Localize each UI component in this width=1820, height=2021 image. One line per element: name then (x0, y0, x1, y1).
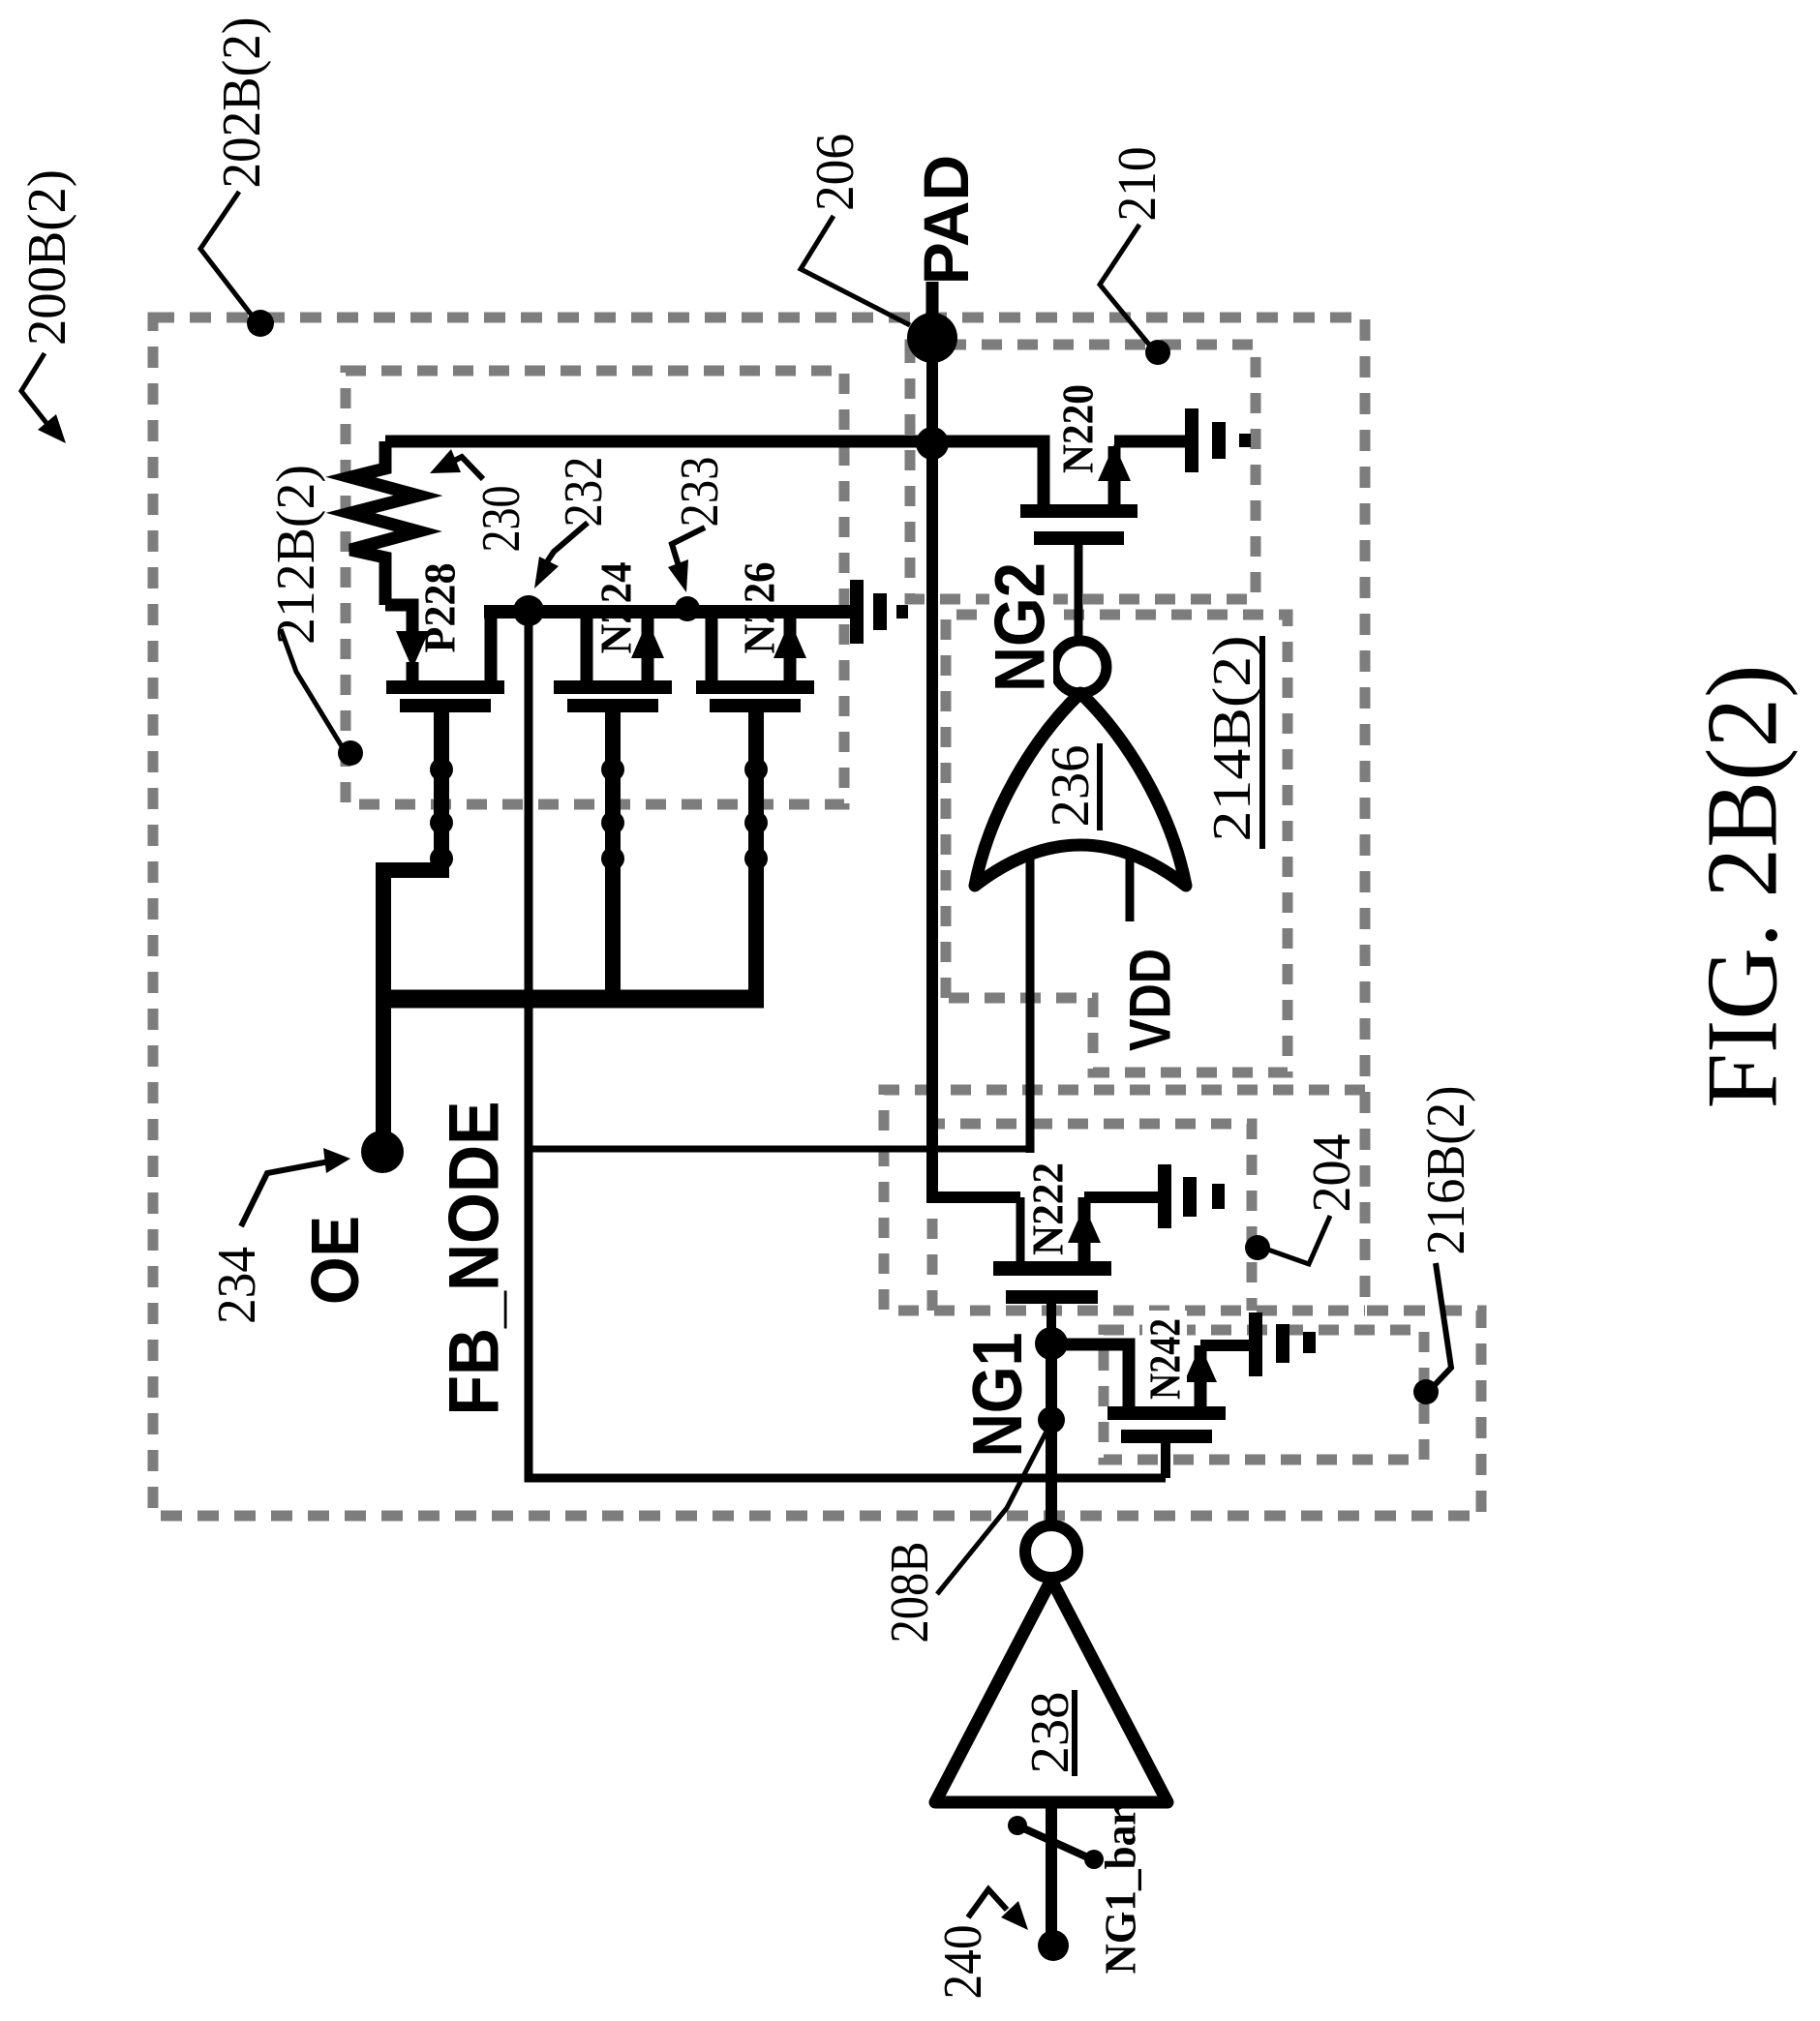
wire PAD top rail to 212B resistor (385, 441, 1044, 504)
wire N224 gate lead (605, 712, 621, 999)
leader arrow 240 (968, 1889, 1028, 1930)
leader arrow 230 (430, 449, 483, 479)
leader 206 (801, 216, 910, 325)
svg-text:202B(2): 202B(2) (212, 17, 272, 189)
PAD terminal (907, 282, 957, 363)
svg-text:238: 238 (1020, 1692, 1080, 1774)
leader 208B (937, 1428, 1048, 1594)
transistor N222 (993, 1197, 1158, 1343)
svg-text:N242: N242 (1140, 1318, 1190, 1400)
wire 212B common rail (484, 605, 850, 618)
label NG2 (982, 559, 1060, 695)
node PAD junction (916, 427, 949, 460)
node 232 (513, 595, 544, 626)
ground N222 (1158, 1164, 1225, 1228)
svg-text:200B(2): 200B(2) (17, 169, 77, 346)
svg-text:232: 232 (554, 457, 614, 528)
node NG1_bar (1038, 1930, 1069, 1961)
svg-text:NG2: NG2 (982, 562, 1060, 692)
wire slash marker 240 (1008, 1816, 1104, 1869)
svg-text:N222: N222 (1023, 1162, 1073, 1255)
inverter 238 output bubble (1025, 1525, 1077, 1578)
svg-text:P228: P228 (415, 563, 465, 653)
svg-text:FB_NODE: FB_NODE (436, 1101, 514, 1416)
svg-text:FIG. 2B(2): FIG. 2B(2) (1685, 665, 1799, 1109)
wire NOR input 2 (to VDD) (1126, 856, 1135, 921)
dashed box 216B(2) keeper circuit (1104, 1330, 1424, 1460)
transistor N226 (696, 612, 814, 712)
svg-text:236: 236 (1041, 745, 1101, 828)
svg-text:OE: OE (297, 1216, 373, 1305)
wire N226 gate lead (748, 712, 764, 999)
node dots on P228 gate lead (430, 758, 453, 870)
svg-text:VDD: VDD (1118, 949, 1183, 1051)
svg-text:240: 240 (933, 1925, 993, 2000)
dashed box 214B(2) NOR-gate circuit (946, 615, 1288, 1072)
node dots on N226 gate lead (744, 758, 768, 870)
transistor N220 (1020, 444, 1137, 640)
svg-text:216B(2): 216B(2) (1416, 1086, 1476, 1255)
node NG1 (1035, 1327, 1068, 1360)
leader 216B(2) (1413, 1263, 1451, 1404)
NOR gate 236 body (975, 693, 1186, 886)
dashed box 202B(2) outer IO-cell boundary (153, 317, 1481, 1516)
leader 202B(2) (200, 192, 274, 337)
svg-text:234: 234 (207, 1247, 267, 1324)
wire FB_NODE vertical and to N242 gate (529, 611, 1166, 1478)
label 214B(2) underlined (1202, 636, 1262, 850)
svg-text:N220: N220 (1053, 384, 1103, 473)
wire FB_NODE to NOR input (529, 1146, 1030, 1153)
svg-text:214B(2): 214B(2) (1202, 636, 1262, 842)
svg-text:233: 233 (670, 457, 730, 528)
wire PAD vertical line (932, 338, 1020, 1197)
leader arrow 200B(2) (21, 353, 66, 443)
dashed box 204 outer driver boundary (884, 1090, 1365, 1311)
wire N220 source to ground (1114, 436, 1185, 448)
wire inverter input (1046, 1802, 1057, 1934)
leader arrow 234 (241, 1148, 350, 1226)
resistor 230 (350, 441, 418, 605)
svg-text:NG1_bar: NG1_bar (1096, 1807, 1145, 1975)
svg-text:210: 210 (1107, 147, 1168, 222)
label 236 underlined (1041, 743, 1101, 830)
dashed box 212B(2) gate tracking circuit (346, 371, 844, 804)
leader 204 (1245, 1216, 1330, 1264)
dashed box 210 pull-down stage (910, 345, 1256, 599)
svg-text:212B(2): 212B(2) (266, 465, 326, 645)
wire OE bus (384, 990, 764, 1009)
dashed box 204 inner driver boundary (932, 1124, 1252, 1311)
node 233 (675, 596, 700, 621)
svg-text:N226: N226 (735, 562, 784, 654)
NOR gate 236 output bubble (1054, 641, 1107, 693)
svg-text:N224: N224 (591, 562, 641, 654)
label N242 (1140, 1311, 1190, 1403)
wire NG1 vertical (1046, 1343, 1057, 1526)
ground 212B (850, 580, 908, 644)
node dots on N224 gate lead (601, 758, 624, 870)
inverter 238 triangle (935, 1580, 1168, 1802)
wire P228 gate to OE (383, 712, 441, 1134)
label 238 underlined (1020, 1690, 1080, 1776)
node OE (361, 1131, 404, 1173)
svg-text:230: 230 (471, 486, 531, 553)
leader arrow 233 (668, 528, 705, 592)
leader 210 (1100, 225, 1170, 365)
svg-text:208B: 208B (880, 1542, 940, 1644)
node NG1 lower (1038, 1406, 1065, 1433)
ground N220 (1185, 408, 1251, 472)
transistor N242 (1107, 1345, 1249, 1478)
wire NG1 to N242 drain (1051, 1344, 1129, 1406)
wire NOR input 1 (to PAD/N222 drain) (1026, 856, 1035, 1153)
svg-text:206: 206 (805, 134, 865, 211)
transistor P228 (385, 605, 504, 712)
ground N242 (1249, 1312, 1316, 1376)
transistor N224 (554, 612, 672, 712)
leader 212B(2) (281, 629, 363, 766)
leader arrow 232 (534, 523, 588, 588)
svg-text:PAD: PAD (910, 155, 982, 285)
svg-text:NG1: NG1 (959, 1333, 1037, 1458)
svg-text:204: 204 (1302, 1134, 1362, 1213)
